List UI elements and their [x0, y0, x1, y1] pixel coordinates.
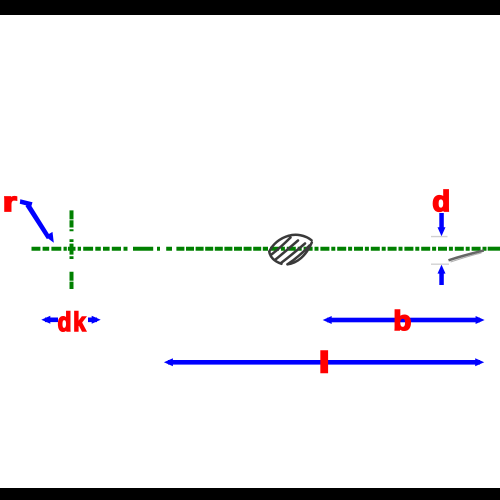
horizontal centerline (green dash-dot)	[32, 247, 500, 251]
extension stubs at rod edges (light gray)	[431, 237, 449, 265]
svg-text:k: k	[73, 308, 86, 337]
b dimension (blue line with outward arrows)	[323, 316, 485, 324]
d dimension line upper segment (blue, arrow down)	[438, 213, 446, 236]
left arrow pointing left	[45, 318, 58, 323]
svg-text:r: r	[3, 187, 17, 216]
thread run-out swoosh (gray)	[449, 251, 484, 263]
d dimension line lower segment (blue, arrow up)	[438, 265, 446, 285]
top letterbox bar	[0, 0, 500, 15]
right arrow pointing right	[88, 318, 97, 323]
arrowhead of r leader	[45, 232, 54, 243]
svg-text:d: d	[58, 308, 72, 337]
dk dimension (blue arrows + red label)	[41, 316, 100, 324]
leader line for r (blue)	[20, 199, 54, 243]
svg-text:l: l	[319, 346, 330, 379]
bottom letterbox bar	[0, 488, 500, 500]
l dimension (blue line with outward arrows)	[164, 358, 484, 366]
svg-text:b: b	[393, 306, 411, 337]
break symbol (gray S-curve strands)	[269, 235, 312, 264]
vertical centerline (green dash-dot)	[70, 210, 74, 289]
